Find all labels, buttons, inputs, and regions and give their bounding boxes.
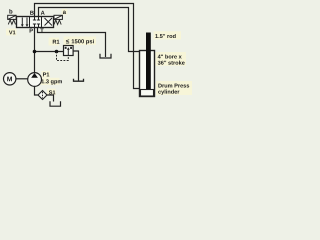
label 4 bore x bbox=[158, 54, 182, 58]
wire P riser pump to valve bbox=[34, 28, 36, 73]
valve solenoid a box bbox=[54, 15, 62, 19]
label highlight drum-press bbox=[156, 81, 192, 95]
label highlight a bbox=[62, 9, 67, 15]
valve spring left bbox=[8, 20, 15, 25]
label lte glyph bbox=[66, 39, 69, 43]
label b bbox=[9, 9, 12, 13]
tank suction bbox=[50, 101, 61, 106]
wire relief outlet to tank bbox=[73, 51, 79, 81]
wire B-port to cylinder cap end bbox=[35, 4, 141, 89]
label T bbox=[40, 29, 43, 33]
relief valve spring blob left bbox=[65, 47, 67, 49]
label 1500 psi bbox=[72, 39, 94, 44]
wire T drain to tank bbox=[38, 28, 106, 58]
label B bbox=[30, 11, 34, 15]
valve box1 arrow 2 bbox=[26, 18, 28, 26]
label 1.3 gpm bbox=[42, 79, 62, 84]
label cylinder bbox=[158, 90, 179, 95]
wire relief branch bbox=[35, 51, 64, 53]
label highlight S1 bbox=[47, 89, 56, 96]
wire A-port to cylinder rod end bbox=[39, 8, 141, 52]
motor M circle bbox=[4, 73, 16, 85]
valve V1 body bbox=[17, 17, 54, 28]
label S1 bbox=[49, 90, 56, 94]
valve box2 stub P bbox=[34, 24, 36, 28]
pump P1 circle bbox=[28, 73, 42, 87]
label 36 stroke bbox=[158, 61, 185, 65]
label highlight V1 bbox=[6, 29, 17, 36]
valve box2 stub A bbox=[38, 17, 40, 21]
valve box2 stub T bbox=[38, 24, 40, 28]
pump triangle bbox=[31, 73, 38, 78]
valve divider 2 bbox=[41, 17, 43, 28]
tank relief-outlet bbox=[74, 79, 84, 82]
label highlight P1 bbox=[42, 71, 51, 78]
cylinder rod bbox=[146, 33, 151, 90]
label highlight 1.3gpm bbox=[41, 78, 60, 85]
label a bbox=[63, 11, 66, 14]
label P1 bbox=[43, 73, 49, 77]
wire strainer to tank bbox=[47, 95, 54, 102]
label A bbox=[41, 11, 45, 15]
label highlight rod bbox=[154, 31, 182, 39]
valve box3 cross arrows bbox=[45, 18, 53, 26]
cylinder body bbox=[140, 51, 155, 97]
valve solenoid b box bbox=[8, 15, 16, 19]
motor M letter bbox=[7, 77, 12, 82]
label highlight bore-stroke bbox=[156, 52, 187, 66]
label 1.5 rod bbox=[155, 34, 175, 38]
label V1 bbox=[9, 31, 16, 35]
label Drum Press bbox=[158, 84, 189, 88]
relief valve arrow bbox=[67, 49, 69, 55]
node junction P-line bbox=[33, 50, 37, 54]
valve spring right bbox=[54, 20, 61, 25]
label P bbox=[30, 29, 33, 33]
label highlight 1500psi bbox=[64, 37, 97, 46]
cylinder piston bbox=[141, 90, 154, 97]
relief valve spring blob right bbox=[70, 47, 72, 49]
wire pump suction to strainer bbox=[35, 86, 39, 95]
shaft motor-pump bbox=[16, 78, 28, 80]
label highlight R1 bbox=[49, 38, 60, 46]
wire pilot dashed bbox=[57, 52, 69, 61]
valve box2 stub B bbox=[34, 17, 36, 21]
node junction pilot bbox=[55, 50, 59, 54]
strainer dashed element bbox=[42, 92, 44, 98]
valve box1 arrow 1 bbox=[21, 18, 23, 26]
tank T-drain bbox=[100, 54, 111, 58]
valve divider 1 bbox=[29, 17, 31, 28]
strainer S1 diamond bbox=[38, 91, 47, 100]
relief valve R1 box bbox=[64, 46, 74, 56]
label R1 bbox=[53, 40, 60, 44]
